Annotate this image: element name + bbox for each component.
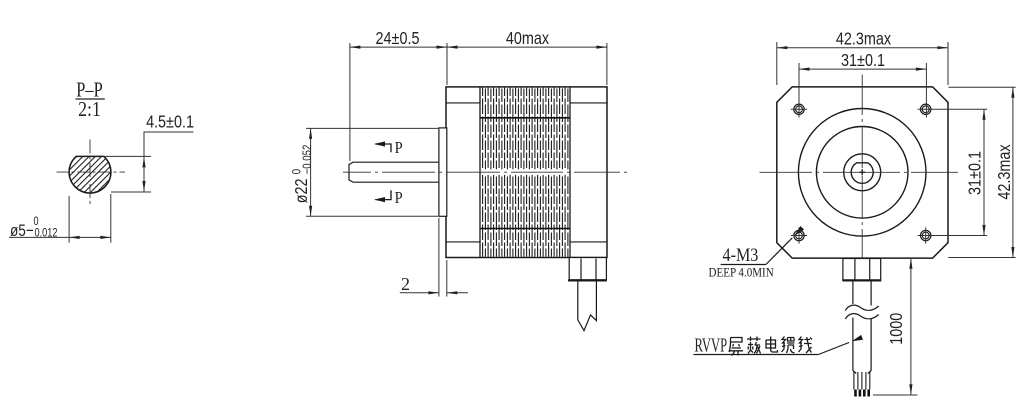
dimension 1000 (cable length)	[873, 258, 917, 395]
hanzi 缆	[782, 337, 795, 354]
svg-text:1000: 1000	[887, 313, 907, 345]
label RVVP shielded cable (Chinese) with leader	[694, 334, 864, 357]
label 4-M3 DEEP 4.0MIN with leader	[709, 226, 805, 280]
dimension Ø5 0/-0.012	[9, 194, 111, 243]
motor body outline	[446, 87, 607, 258]
dimension 31±0.1 (right, vertical)	[918, 109, 988, 235]
svg-text:42.3max: 42.3max	[995, 144, 1015, 199]
bearing hub circle	[844, 154, 881, 191]
shaft	[349, 162, 439, 182]
cable (front view) lower part	[853, 318, 871, 374]
svg-text:4.5±0.1: 4.5±0.1	[146, 112, 194, 132]
horizontal centerline	[760, 171, 959, 173]
vertical centerline	[861, 75, 863, 270]
mounting hole top-right	[921, 104, 931, 114]
dimension 40max	[447, 29, 607, 85]
svg-text:ø5−: ø5−	[10, 222, 34, 241]
section cut mark P (lower)	[374, 189, 403, 207]
svg-text:24±0.5: 24±0.5	[376, 29, 420, 49]
wire outlet box (front view)	[842, 259, 881, 281]
svg-text:2: 2	[401, 274, 410, 294]
svg-text:DEEP 4.0MIN: DEEP 4.0MIN	[709, 265, 774, 280]
shaft section D-profile with hatching	[69, 156, 111, 193]
svg-text:0.012: 0.012	[35, 228, 58, 240]
flange square outline with chamfered corners	[777, 87, 948, 258]
stripped conductor strands	[854, 372, 870, 390]
section title P-P 2:1	[76, 79, 105, 122]
dimension 31±0.1 (top)	[799, 51, 926, 118]
svg-text:P: P	[395, 189, 403, 207]
dimension 2 (boss thickness)	[400, 218, 468, 297]
dimension 4.5±0.1	[104, 112, 194, 192]
endbell step lines	[446, 102, 480, 104]
hanzi 线	[799, 337, 813, 354]
mounting hole bottom-right	[921, 227, 931, 243]
cable (front view) upper part	[853, 281, 871, 306]
centerline vertical of section	[89, 140, 91, 205]
mounting hole bottom-left	[791, 227, 807, 243]
svg-text:P: P	[395, 139, 403, 157]
pilot boss circle Ø22	[816, 127, 908, 219]
centerline horizontal of section	[57, 171, 126, 173]
svg-text:ø22: ø22	[292, 179, 312, 204]
hanzi 屏	[729, 338, 743, 356]
dimension 24±0.5	[350, 29, 447, 161]
hanzi 蔽	[747, 337, 761, 354]
cable break wave lower	[845, 314, 879, 319]
cable stub with torn end (side view)	[578, 281, 597, 331]
svg-text:4-M3: 4-M3	[723, 244, 759, 266]
lamination divider lines	[480, 117, 570, 119]
svg-text:42.3max: 42.3max	[836, 29, 891, 49]
section cut mark P (upper)	[374, 139, 403, 157]
center cross mark	[859, 169, 865, 175]
svg-text:31±0.1: 31±0.1	[841, 51, 885, 71]
centerline clearance band	[481, 169, 569, 175]
hanzi 电	[766, 337, 778, 353]
stator lamination block	[480, 88, 570, 257]
svg-text:−0.052: −0.052	[301, 145, 314, 175]
cable break wave upper	[845, 305, 879, 310]
tinned wire tips	[854, 390, 870, 397]
svg-text:RVVP: RVVP	[695, 334, 728, 357]
dimension 42.3max (right, vertical)	[948, 87, 1015, 257]
svg-text:2:1: 2:1	[78, 99, 101, 122]
main centerline	[343, 171, 627, 173]
shaft circle with flat	[851, 163, 873, 184]
svg-text:31±0.1: 31±0.1	[965, 151, 985, 195]
wire outlet box (side view)	[568, 258, 607, 281]
dimension 42.3max (top)	[777, 29, 948, 85]
svg-text:0: 0	[34, 216, 39, 228]
mounting hole top-left	[791, 104, 807, 114]
svg-text:40max: 40max	[506, 29, 549, 49]
pilot boss plate	[439, 128, 447, 216]
dimension Ø22 0/-0.052 (rotated)	[291, 128, 438, 216]
pilot raised ring outer circle	[798, 109, 926, 237]
